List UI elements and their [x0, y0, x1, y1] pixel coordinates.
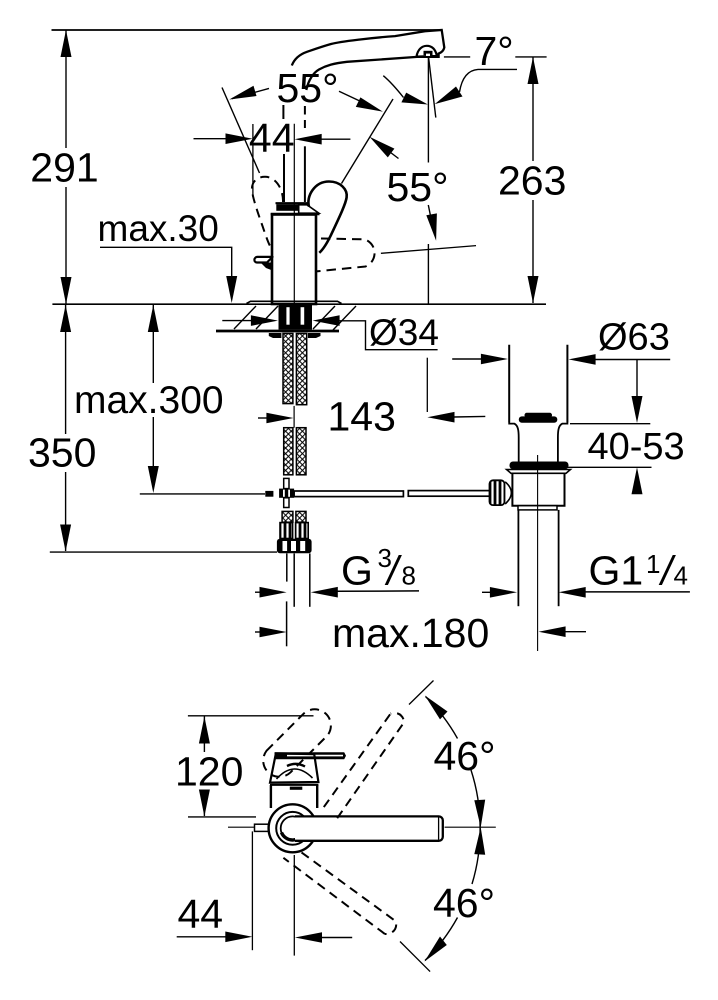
- dimension max.300 vertical line: [152, 305, 154, 383]
- angle 55 second lower leader: [428, 205, 433, 228]
- svg-text:1: 1: [646, 549, 660, 579]
- dimension 44 right tail: [321, 138, 350, 140]
- svg-text:44: 44: [178, 891, 224, 937]
- dimension max.30 arrow: [226, 276, 237, 303]
- O63 left tail: [452, 358, 482, 360]
- angle 7 reference tick: [444, 56, 470, 58]
- dimension 44 plan left arrow: [225, 932, 252, 943]
- dimension O63 right arrow: [569, 354, 596, 365]
- spout outline: [292, 30, 445, 90]
- escutcheon base plate above deck: [247, 301, 342, 303]
- max.180 right tail: [565, 631, 586, 633]
- aerator black square: [424, 51, 433, 56]
- dimension 44 plan right extension: [293, 855, 295, 956]
- top reference line: [52, 29, 442, 31]
- svg-text:350: 350: [28, 430, 96, 476]
- svg-text:46°: 46°: [433, 880, 495, 926]
- dimension 291 bottom arrow: [61, 277, 72, 304]
- spout vertical extension line: [427, 57, 429, 163]
- dimension 44 plan left tail: [177, 936, 226, 938]
- G 3/8 left arrow: [260, 587, 287, 598]
- dimension 263 vertical line: [532, 57, 534, 161]
- 46 top arc end arrow lower: [474, 800, 485, 828]
- angle 55 first left arrow: [229, 86, 256, 100]
- lever upright solid edges: [283, 154, 285, 202]
- spout tilted 7 degree line: [429, 58, 436, 118]
- body top edge: [271, 213, 320, 215]
- waste tailpipe walls: [517, 510, 519, 606]
- lever bar solid: [275, 752, 347, 759]
- dimension max.180 right arrow: [539, 626, 566, 637]
- dimension O63 left arrow: [481, 354, 508, 365]
- 40-53 lower reference line: [564, 466, 652, 468]
- dimension 143 left arrow: [266, 413, 293, 424]
- handle dome arc: [277, 769, 313, 779]
- dashed spout down axis extension: [400, 942, 430, 972]
- svg-text:55°: 55°: [277, 65, 339, 111]
- waste neck: [509, 422, 567, 462]
- cartridge cap top line: [276, 202, 308, 204]
- waste lower ring band: [518, 506, 557, 510]
- handle base trapezoid: [270, 753, 318, 782]
- supply pipe right wall: [309, 553, 311, 606]
- 46 bottom arc end arrow lower: [425, 937, 447, 962]
- dimension 44 left extension line: [252, 124, 254, 197]
- dimension O34 right arrow: [313, 315, 340, 326]
- angle 55 second lower arrow: [426, 213, 437, 240]
- locknut washer right: [308, 333, 321, 338]
- 40-53 upper reference line: [570, 423, 650, 425]
- waste o-ring black band: [510, 462, 569, 470]
- lever upright dashed extensions: [282, 105, 284, 119]
- dimension O34 leader step: [339, 321, 438, 350]
- body black tab: [290, 787, 303, 790]
- supply pipe centerline: [293, 553, 295, 606]
- max180 left extension line: [286, 601, 288, 646]
- 46 bottom arc segment upper: [472, 827, 480, 884]
- dimension 143 right arrow: [427, 412, 454, 423]
- braided hose lower left segment: [284, 428, 293, 475]
- dimension 350 vertical line: [65, 305, 67, 434]
- dimension 44 left arrow: [226, 133, 253, 144]
- svg-text:40-53: 40-53: [588, 426, 685, 468]
- svg-text:46°: 46°: [434, 733, 496, 779]
- dimension max.30 leader: [100, 247, 232, 277]
- hose gap centerline: [293, 406, 295, 428]
- cartridge cap collar white: [299, 205, 319, 213]
- dimension max.300 top arrow: [148, 305, 159, 332]
- angle 7 right arc arrow: [435, 87, 463, 105]
- svg-text:max.300: max.300: [74, 379, 224, 422]
- G1 1/4 left arrow: [490, 587, 517, 598]
- lever diagonal line: [342, 99, 394, 184]
- angle 7 leader curve: [460, 69, 518, 92]
- dimension 350 top arrow: [60, 305, 71, 332]
- angle 7 left arc: [383, 76, 403, 98]
- body square sides: [270, 785, 272, 808]
- svg-text:120: 120: [175, 749, 243, 795]
- G1 1/4 right arrow: [559, 587, 586, 598]
- 46 bottom arc end arrow upper: [474, 827, 485, 855]
- pop-up tee left stub: [265, 491, 273, 497]
- locknut washer left: [269, 333, 282, 338]
- dimension 44 plan right tail: [321, 937, 352, 939]
- dashed swung spout capsule: [315, 239, 375, 272]
- svg-text:7°: 7°: [475, 28, 514, 74]
- escutcheon white slots: [286, 307, 289, 325]
- waste knurled knob: [490, 480, 505, 505]
- 40-53 upper vertical with down arrow: [636, 360, 638, 413]
- 120 spout-edge reference line: [188, 816, 256, 818]
- waste flange: [507, 470, 571, 474]
- plan centerline left: [228, 826, 271, 828]
- dimension 44 plan left extension: [251, 831, 253, 950]
- dimension 44 right arrow: [295, 134, 322, 145]
- 46 top arc end arrow upper: [425, 696, 448, 720]
- swivel inner circle: [281, 816, 305, 840]
- svg-text:263: 263: [498, 157, 566, 203]
- dimension 263 bottom arrow: [528, 276, 539, 303]
- deck section hatching left: [234, 306, 278, 329]
- waste plug small top bar: [525, 413, 553, 418]
- faucet body rectangle: [272, 215, 316, 305]
- swivel middle ring: [276, 812, 309, 845]
- countertop deck line: [52, 303, 546, 305]
- 120 top reference line: [188, 715, 314, 717]
- angle 55 first right leader: [339, 91, 372, 107]
- waste knob throat: [505, 482, 511, 504]
- max.180 left tail: [255, 631, 262, 633]
- cartridge cap black block: [276, 204, 298, 211]
- waste axis centerline: [537, 455, 539, 651]
- dashed spout down position: [283, 852, 396, 934]
- 40-53 lower vertical with up arrow: [636, 478, 638, 488]
- angle 7 left arc arrow: [401, 93, 428, 105]
- swivel outer circle: [269, 804, 317, 852]
- svg-text:G1: G1: [589, 547, 644, 593]
- dimension 44 line left tail: [194, 138, 227, 140]
- dimension 143 left tail: [258, 417, 268, 419]
- dashed lever handle (alternate position): [252, 177, 283, 246]
- svg-text:143: 143: [328, 394, 396, 440]
- countertop bottom line: [216, 330, 339, 333]
- swung spout axis line: [381, 246, 476, 254]
- dimension 44 plan right arrow: [295, 932, 322, 943]
- 46 top arc segment upper: [426, 697, 458, 739]
- waste plug black bar: [519, 416, 558, 422]
- handle base bottom double line: [270, 784, 318, 786]
- svg-text:Ø34: Ø34: [369, 312, 439, 353]
- G 3/8 right tail under label: [337, 590, 419, 592]
- spout tube end inner line: [438, 818, 440, 840]
- O63 shelf line under label: [595, 359, 670, 361]
- 46 top arc segment lower: [471, 770, 480, 827]
- dimension 143 right tail: [454, 415, 486, 418]
- braided hose upper right segment: [296, 334, 306, 405]
- dashed spout up axis extension: [409, 681, 434, 705]
- G 3/8 right arrow: [311, 587, 338, 598]
- horizontal pop-up rod to waste: [294, 491, 403, 497]
- dimension O34 left arrow: [251, 315, 278, 326]
- waste tube walls: [508, 345, 510, 423]
- faucet body centerline: [293, 124, 295, 303]
- plan centerline right: [445, 826, 496, 828]
- angle 55 first right arrow: [356, 97, 383, 111]
- escutcheon black block below deck: [279, 304, 313, 329]
- deck section hatching right: [313, 306, 356, 330]
- dimension 120 vertical line: [203, 717, 205, 753]
- svg-text:291: 291: [30, 145, 98, 191]
- spout tube plan: [295, 816, 443, 840]
- svg-text:55°: 55°: [387, 164, 449, 210]
- dashed lever plan position: [263, 709, 331, 776]
- supply pipe left wall: [286, 553, 288, 581]
- 46 bottom arc segment lower: [425, 918, 458, 961]
- connection nut black band: [277, 539, 312, 554]
- svg-text:8: 8: [402, 560, 416, 590]
- braided hose lower right segment: [296, 428, 306, 475]
- waste valve body: [512, 473, 564, 505]
- solid lever handle: [308, 182, 346, 253]
- dimension 350 bottom arrow: [60, 525, 71, 552]
- hose coupling nipples ribbed: [280, 523, 293, 539]
- swivel inner bottom thick arc: [282, 833, 304, 841]
- dimension O34 left tail: [222, 320, 251, 322]
- dimension max.180 left arrow: [260, 627, 287, 638]
- G1 1/4 left tail: [482, 591, 491, 593]
- svg-text:44: 44: [249, 115, 295, 161]
- pop-up rod lower guide: [284, 498, 289, 508]
- dimension 291 top arrow: [61, 30, 72, 57]
- dimension 263 top arrow: [528, 57, 539, 84]
- svg-text:G: G: [341, 547, 373, 593]
- dimension max.300 bottom arrow: [148, 466, 159, 493]
- braided hose short segment above coupling: [282, 511, 293, 522]
- svg-text:Ø63: Ø63: [598, 317, 670, 359]
- angle 55 second upper arrow: [370, 137, 395, 158]
- lever tilt extension line left: [222, 88, 260, 174]
- svg-text:max.30: max.30: [98, 208, 219, 249]
- pop-up rod upper guide: [284, 478, 289, 488]
- dimension max.300 bottom reference line: [140, 493, 265, 495]
- dimension 120 bottom arrow: [199, 790, 210, 817]
- left outlet stub: [255, 824, 271, 831]
- spout hook on body left: [254, 257, 272, 263]
- svg-text:4: 4: [674, 560, 688, 590]
- dimension 291 vertical line: [65, 30, 67, 148]
- dimension 120 top arrow: [199, 717, 210, 744]
- pop-up tee block: [279, 489, 294, 498]
- dashed spout up position: [324, 713, 404, 818]
- svg-text:max.180: max.180: [332, 610, 489, 656]
- dimension 350 bottom reference line: [50, 551, 277, 553]
- angle 55 second upper leader: [378, 143, 399, 159]
- angle 55 first left leader: [232, 88, 269, 98]
- G1 1/4 shelf line: [585, 591, 690, 593]
- aerator outlet dome: [417, 46, 437, 57]
- braided hose upper left segment: [283, 334, 293, 404]
- G 3/8 dimension left tail: [255, 591, 262, 593]
- dimension 143 right extension line: [426, 358, 428, 412]
